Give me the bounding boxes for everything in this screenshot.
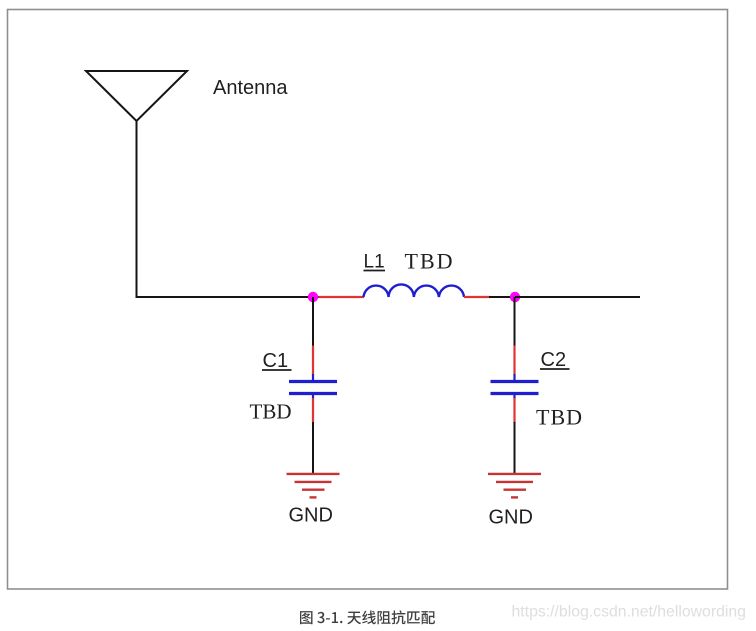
svg-text:TBD: TBD xyxy=(536,405,583,430)
label L1 xyxy=(364,252,386,273)
C1 top lead blue xyxy=(312,374,314,380)
ground symbol 1 xyxy=(287,474,340,498)
wire black to ground 2 xyxy=(514,422,516,474)
wire red above C1 xyxy=(312,346,314,376)
node B junction dot xyxy=(510,292,520,302)
antenna symbol xyxy=(86,71,187,297)
wire segment red right of L1 xyxy=(464,296,490,298)
svg-text:C1: C1 xyxy=(263,350,289,372)
wire red above C2 xyxy=(513,346,515,376)
capacitor C2 plates xyxy=(491,382,539,394)
svg-text:GND: GND xyxy=(289,505,333,527)
ground symbol 2 xyxy=(488,474,541,498)
wire black to ground 1 xyxy=(312,422,314,474)
wire: node B down to C2 (black) xyxy=(514,297,516,347)
C1 bottom lead blue xyxy=(312,395,314,399)
wire segment red left of L1 xyxy=(319,296,365,298)
wire black to node B xyxy=(489,296,515,298)
wire red below C1 xyxy=(312,398,314,423)
node A junction dot xyxy=(308,292,318,302)
wire red below C2 xyxy=(513,398,515,423)
svg-text:GND: GND xyxy=(489,507,533,529)
C2 top lead blue xyxy=(513,374,515,380)
svg-text:C2: C2 xyxy=(541,349,567,371)
svg-text:https://blog.csdn.net/hellowor: https://blog.csdn.net/hellowording xyxy=(512,604,746,621)
wire stub node A to L1 (black) xyxy=(313,296,320,298)
wire: antenna to node A xyxy=(136,296,314,298)
svg-text:Antenna: Antenna xyxy=(213,77,288,99)
svg-text:L1: L1 xyxy=(364,252,385,273)
inductor L1 xyxy=(364,284,465,297)
wire: node A down to C1 (black) xyxy=(312,297,314,347)
C2 bottom lead blue xyxy=(513,395,515,399)
wire: node B to output xyxy=(515,296,640,298)
svg-text:TBD: TBD xyxy=(250,400,292,424)
capacitor C1 plates xyxy=(289,382,337,394)
svg-text:TBD: TBD xyxy=(405,249,455,274)
label C2 xyxy=(540,349,570,371)
label C1 xyxy=(262,350,292,372)
caption: figure 3-1 title (CJK outlines) xyxy=(300,610,435,624)
